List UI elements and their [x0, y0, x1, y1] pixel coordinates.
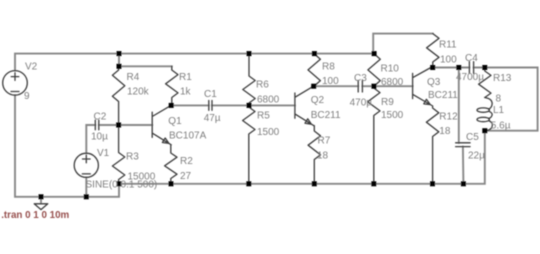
svg-text:R7: R7 [318, 136, 331, 147]
svg-text:9: 9 [24, 91, 30, 102]
svg-text:R1: R1 [179, 72, 192, 83]
svg-text:470µ: 470µ [350, 97, 373, 108]
svg-text:18: 18 [317, 150, 329, 161]
svg-text:BC211: BC211 [311, 110, 341, 121]
svg-text:Q1: Q1 [168, 116, 182, 127]
svg-text:C3: C3 [354, 73, 367, 84]
svg-text:R10: R10 [381, 63, 400, 74]
svg-text:C5: C5 [466, 132, 479, 143]
svg-text:L1: L1 [493, 105, 505, 116]
svg-text:22µ: 22µ [468, 150, 485, 161]
svg-text:BC211: BC211 [428, 90, 458, 101]
svg-text:Q2: Q2 [311, 95, 325, 106]
svg-text:C4: C4 [465, 53, 478, 64]
svg-text:8: 8 [496, 93, 502, 104]
svg-text:1k: 1k [180, 86, 192, 97]
svg-text:4700µ: 4700µ [456, 72, 484, 83]
svg-text:120k: 120k [127, 86, 150, 97]
svg-text:C1: C1 [204, 89, 217, 100]
svg-text:R9: R9 [381, 97, 394, 108]
svg-text:R12: R12 [439, 112, 458, 123]
svg-text:6800: 6800 [381, 77, 404, 88]
svg-text:C2: C2 [94, 112, 107, 123]
svg-text:R3: R3 [126, 151, 139, 162]
svg-text:R13: R13 [493, 73, 512, 84]
svg-text:5.6µ: 5.6µ [491, 121, 511, 132]
svg-text:47µ: 47µ [204, 113, 221, 124]
svg-text:BC107A: BC107A [169, 131, 207, 142]
svg-text:R11: R11 [439, 39, 457, 50]
svg-text:.tran 0 1 0 10m: .tran 0 1 0 10m [1, 210, 69, 221]
svg-text:100: 100 [440, 55, 457, 66]
svg-text:1500: 1500 [381, 110, 404, 121]
svg-text:10µ: 10µ [91, 132, 108, 143]
svg-text:27: 27 [180, 171, 192, 182]
svg-text:R8: R8 [322, 62, 335, 73]
svg-text:R5: R5 [257, 111, 270, 122]
svg-text:15000: 15000 [128, 172, 156, 183]
svg-text:18: 18 [439, 126, 451, 137]
svg-text:1500: 1500 [257, 127, 280, 138]
svg-text:R6: R6 [256, 79, 269, 90]
svg-text:R2: R2 [180, 156, 193, 167]
svg-text:V1: V1 [97, 148, 110, 159]
svg-text:6800: 6800 [257, 95, 280, 106]
svg-text:V2: V2 [25, 62, 38, 73]
svg-text:Q3: Q3 [427, 77, 441, 88]
svg-text:R4: R4 [127, 72, 140, 83]
svg-text:100: 100 [322, 76, 339, 87]
